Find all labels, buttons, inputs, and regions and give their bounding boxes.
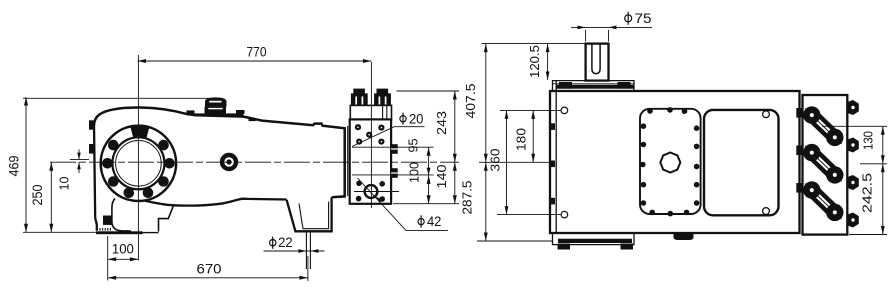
nut facet highlights	[356, 97, 385, 105]
svg-text:100: 100	[407, 162, 422, 183]
pump body outline top	[94, 107, 345, 197]
svg-text:22: 22	[278, 234, 293, 250]
dim 407.5	[485, 44, 487, 163]
dim 250 line	[50, 162, 52, 232]
fluid end top cap	[350, 105, 391, 119]
phi20 leader	[352, 127, 425, 147]
ext valve1 center	[822, 125, 887, 127]
svg-text:100: 100	[112, 241, 134, 257]
left mount hole upper	[561, 107, 568, 114]
svg-text:180: 180	[514, 128, 529, 151]
cover bolt dots	[640, 107, 699, 216]
body belly bottom profile	[145, 199, 287, 206]
right foot outline	[287, 197, 332, 231]
fluid end vertical centerline	[370, 62, 372, 208]
bearing bore inner ring	[116, 141, 162, 187]
suction bore phi42	[365, 185, 378, 198]
discharge port studs upper	[391, 144, 398, 154]
left foot washer hatch	[100, 228, 110, 231]
plunger offset centerline	[70, 158, 89, 160]
svg-text:20: 20	[409, 110, 424, 126]
port stud slits	[391, 149, 398, 173]
svg-text:120.5: 120.5	[527, 45, 542, 78]
bracket clamp bar	[558, 239, 632, 243]
arrowheads side view	[24, 59, 457, 280]
flange bolt blob left	[559, 82, 572, 89]
anchor bolt in right foot	[306, 232, 310, 270]
left foot bolt boss	[103, 216, 112, 225]
valve stud cap left	[353, 89, 365, 95]
shaft keyway slot	[592, 44, 600, 74]
ext bracket bottom	[477, 240, 552, 242]
crank main centerline	[50, 161, 459, 163]
left mount hole lower	[561, 211, 568, 218]
bracket foot pad right	[621, 244, 634, 250]
shaft seal flange top	[553, 81, 635, 91]
dim 770 line	[138, 60, 372, 62]
body left wall inner line	[555, 81, 557, 233]
svg-text:10: 10	[57, 177, 72, 191]
oil sight glass	[222, 155, 236, 169]
valve clamp 2	[812, 153, 835, 175]
flange clamp bar	[556, 85, 634, 89]
dim 243-140 column	[454, 91, 456, 204]
block corner dots	[356, 181, 385, 202]
ext hole lower	[497, 214, 561, 216]
web between left foot and belly	[159, 205, 174, 231]
top view body rectangle	[550, 91, 800, 233]
dim label phi22	[270, 237, 276, 249]
valve manifold strip	[803, 95, 848, 235]
cap base bolt left	[187, 110, 195, 114]
valve clamp 1	[812, 115, 835, 137]
dim label phi42	[418, 215, 424, 227]
svg-text:95: 95	[406, 139, 421, 153]
dim phi75	[571, 26, 652, 28]
manifold stud nuts right edge	[847, 100, 859, 228]
svg-text:670: 670	[197, 261, 222, 277]
valve stud cap right	[377, 89, 389, 95]
ext valve2 center	[860, 163, 887, 165]
nut center pin holes	[851, 106, 854, 222]
svg-text:407.5: 407.5	[463, 84, 478, 119]
dim phi22	[264, 250, 325, 252]
bracket foot pad left	[558, 244, 571, 250]
oil filler breather cap	[205, 97, 227, 113]
flange vertical centerline	[137, 55, 139, 261]
flange bolt blob right	[618, 82, 631, 89]
discharge port studs lower	[391, 168, 398, 178]
dim 360	[506, 110, 508, 214]
bearing flange outer circle	[101, 126, 176, 201]
svg-text:130: 130	[861, 131, 876, 150]
cap base bolt right	[236, 110, 245, 114]
cover center octagon plug	[660, 153, 680, 173]
cylinder head cover plate	[704, 110, 779, 215]
bottom mounting bracket	[553, 233, 635, 245]
dim 469 line	[25, 97, 27, 232]
plunger stub marks in gap	[796, 108, 802, 118]
dim 120.5	[547, 44, 549, 80]
ext hole upper	[500, 109, 561, 111]
baseline left	[23, 231, 97, 233]
pump body left edge	[94, 124, 97, 231]
left edge plug middle	[550, 161, 556, 168]
svg-text:243: 243	[434, 111, 449, 135]
ext shaft end	[482, 43, 585, 45]
crankshaft end	[586, 44, 609, 81]
svg-text:360: 360	[488, 149, 503, 172]
svg-text:140: 140	[434, 165, 449, 189]
valve stud nut right	[374, 93, 391, 105]
dim 130-242.5 column	[882, 126, 884, 234]
valve clamp 3	[812, 190, 835, 212]
fluid end block	[350, 119, 391, 203]
cap highlight slits	[209, 101, 221, 103]
flange bolt dots	[102, 140, 175, 198]
head plate hole bottom	[763, 208, 770, 215]
gauge holes phi20	[355, 124, 385, 145]
oil filler cap base plate	[194, 113, 244, 116]
ext block bottom right	[393, 203, 459, 205]
ext center left	[479, 161, 552, 163]
phi42 bore horizontal centerline	[354, 191, 399, 193]
valve clamp dumbbells	[803, 106, 843, 221]
foot inner rib	[112, 199, 131, 232]
dim 287.5	[485, 162, 487, 241]
right foot inner lines	[299, 202, 329, 229]
lower port centerline	[352, 174, 434, 176]
ext stud top right	[397, 90, 460, 92]
left foot base plate	[96, 231, 143, 234]
dim label phi20	[400, 113, 406, 125]
crankcase inspection cover	[640, 109, 701, 214]
svg-text:770: 770	[247, 44, 267, 60]
wire body right face inner line	[347, 126, 349, 196]
top cap hatch lines	[383, 105, 387, 119]
ext line cap top	[23, 97, 210, 99]
svg-text:242.5: 242.5	[860, 173, 875, 213]
ext strip bottom	[849, 234, 887, 236]
arrowheads top view	[484, 26, 885, 242]
dim 180	[532, 110, 534, 162]
flange top keyway wedge	[130, 126, 149, 138]
crankcase cover bolt bump lower	[89, 144, 95, 154]
svg-text:287.5: 287.5	[460, 181, 475, 215]
svg-text:250: 250	[29, 184, 45, 205]
head plate hole top	[763, 111, 770, 118]
dim 95-100 column	[428, 147, 430, 204]
top edge small tab right of cap	[249, 118, 256, 121]
bearing bore outer ring	[112, 137, 164, 189]
dim 10 arrows	[78, 150, 80, 160]
upper port centerline	[352, 146, 434, 148]
dim 670	[108, 277, 308, 279]
left edge plug upper	[550, 123, 556, 130]
valve stud nut left	[351, 93, 368, 105]
svg-text:75: 75	[635, 10, 652, 26]
svg-text:42: 42	[427, 213, 442, 229]
bottom center plug tab	[674, 233, 694, 240]
svg-text:469: 469	[6, 155, 22, 176]
left edge plug lower	[550, 198, 556, 205]
dim 100 foot	[108, 258, 139, 260]
phi42 leader	[358, 178, 449, 230]
dim label phi75	[625, 12, 632, 25]
crankcase cover bolt bump upper	[89, 120, 95, 129]
